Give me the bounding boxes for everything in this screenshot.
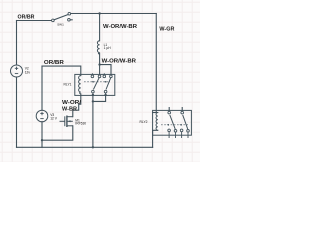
M1 drain stub: [67, 116, 73, 118]
RLY1 coil: [79, 76, 81, 95]
RLY1 throw contacts: [91, 75, 94, 78]
RLY1 pole contacts: [92, 90, 95, 93]
wire V3 bottom lead: [41, 122, 43, 148]
relay RLY2: [153, 110, 192, 138]
RLY2 lever 1: [170, 115, 175, 129]
svg-text:W-BR: W-BR: [62, 106, 77, 112]
svg-text:W-GR: W-GR: [159, 26, 174, 32]
wire W-OR/W-BR top horizontal: [71, 13, 157, 15]
wire branch to RLY1 fourth contact: [100, 65, 111, 75]
wire RLY1 poles U-link: [93, 95, 106, 101]
RLY2 linkage arrows: [167, 124, 169, 126]
RLY1 lever 2: [106, 78, 111, 90]
transistor M1: [60, 116, 73, 128]
M1 gate bar: [64, 116, 66, 126]
voltage source V3: [36, 110, 48, 122]
wire RLY2 coil bottom lead: [153, 130, 158, 147]
svg-text:SW1: SW1: [57, 23, 64, 27]
svg-text:1 µH: 1 µH: [104, 46, 112, 50]
voltage source V2: [11, 65, 23, 77]
switch SW1 open throw stub: [71, 19, 73, 21]
RLY2 lever 2: [183, 115, 188, 129]
RLY1 contact stubs: [92, 73, 105, 95]
wire L1 bottom lead to RLY1 contact: [99, 53, 101, 75]
wire L1 top lead: [99, 14, 101, 41]
RLY2 throw contacts: [168, 129, 171, 132]
svg-text:RLY2: RLY2: [140, 120, 148, 124]
wire RLY2 coil top lead: [153, 112, 158, 114]
M1 source stub: [67, 125, 73, 127]
wire OR/BR second horizontal from V3 to RLY1 coil: [42, 66, 81, 76]
RLY1 box: [75, 74, 115, 95]
RLY2 box: [153, 110, 192, 135]
wire RLY1 pole to ground bus: [92, 101, 94, 147]
wire MOSFET source to V3 junction: [42, 126, 73, 140]
M1 gate lead: [60, 120, 65, 122]
wire V2 positive lead (left vertical top): [16, 21, 18, 66]
RLY1 linkage dashes: [84, 81, 110, 83]
wire OR/BR horizontal to SW1: [17, 20, 52, 22]
relay RLY1: [75, 73, 115, 95]
RLY2 pole contacts: [168, 111, 171, 114]
RLY2 coil: [156, 113, 158, 131]
switch SW1 lever: [54, 14, 68, 19]
svg-text:OR/BR: OR/BR: [44, 60, 64, 66]
switch SW1 contacts: [52, 12, 71, 21]
svg-text:12v: 12v: [25, 70, 31, 74]
svg-text:12 V: 12 V: [50, 117, 58, 121]
junction dots: [41, 12, 107, 148]
M1 body stub: [67, 120, 73, 122]
wire RLY1 coil bottom to MOSFET drain: [73, 95, 81, 117]
inductor L1: [97, 41, 99, 54]
wire W-GR right vertical: [155, 14, 157, 113]
RLY2 contact stubs: [169, 132, 188, 138]
wire V2 negative lead (left vertical bottom): [16, 77, 18, 147]
svg-text:W-OR/W-BR: W-OR/W-BR: [102, 59, 137, 65]
wire V3 top lead: [41, 66, 43, 110]
svg-text:W-OR/: W-OR/: [62, 100, 82, 106]
svg-text:OR/BR: OR/BR: [18, 15, 35, 21]
M1 channel bar: [66, 116, 68, 128]
wire RLY2 pole stubs: [169, 108, 182, 111]
RLY1 linkage arrows: [91, 81, 93, 83]
svg-text:W-OR/W-BR: W-OR/W-BR: [103, 24, 137, 30]
wire ground bottom bus: [17, 146, 153, 148]
RLY2 linkage dashes: [161, 124, 188, 126]
svg-text:RLY1: RLY1: [64, 82, 72, 86]
M1 body arrow: [68, 120, 71, 122]
svg-text:IRF530: IRF530: [75, 121, 86, 125]
RLY1 lever 1: [93, 78, 99, 90]
